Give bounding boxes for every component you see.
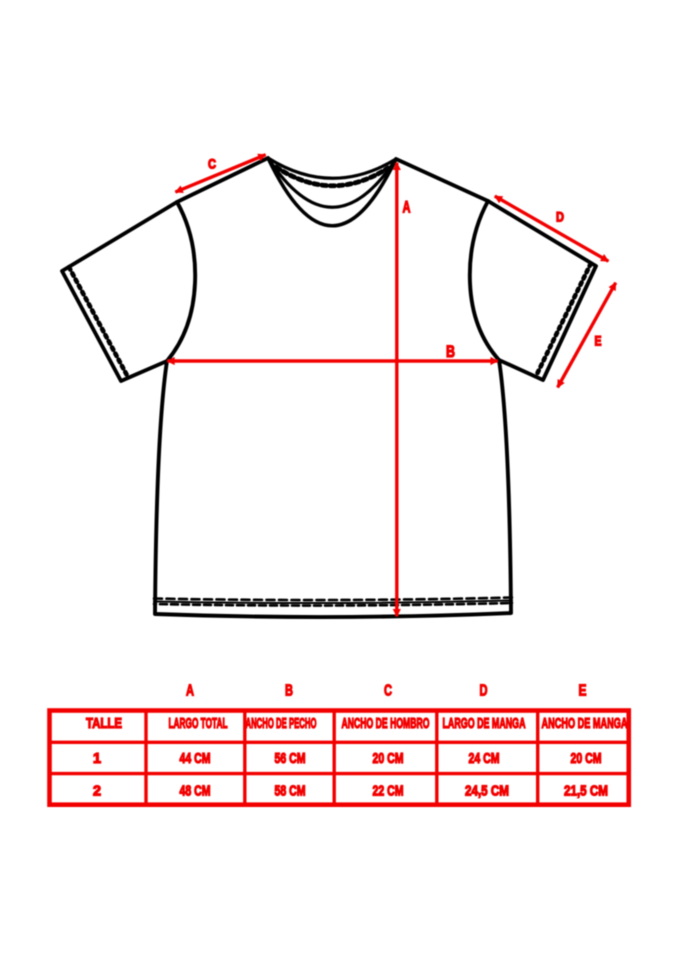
svg-text:22 CM: 22 CM [373,783,404,800]
svg-text:B: B [285,683,293,700]
svg-text:C: C [208,157,216,172]
svg-text:ANCHO DE HOMBRO: ANCHO DE HOMBRO [342,715,430,732]
svg-text:TALLE: TALLE [86,715,122,732]
svg-text:B: B [446,342,455,361]
svg-text:48 CM: 48 CM [180,783,211,800]
svg-text:LARGO DE MANGA: LARGO DE MANGA [443,715,526,732]
svg-text:D: D [480,683,488,700]
svg-text:20 CM: 20 CM [571,750,602,767]
svg-text:A: A [403,198,411,217]
svg-text:E: E [595,334,602,349]
svg-text:24 CM: 24 CM [469,750,500,767]
svg-text:LARGO TOTAL: LARGO TOTAL [169,715,228,732]
svg-text:1: 1 [93,750,101,767]
svg-text:ANCHO DE MANGA: ANCHO DE MANGA [542,715,628,732]
svg-text:24,5 CM: 24,5 CM [465,783,509,800]
svg-text:A: A [186,683,194,700]
svg-text:C: C [384,683,392,700]
svg-text:E: E [579,683,587,700]
svg-text:21,5 CM: 21,5 CM [564,783,608,800]
svg-text:D: D [556,210,564,225]
svg-text:44 CM: 44 CM [180,750,211,767]
svg-text:ANCHO DE PECHO: ANCHO DE PECHO [246,715,317,732]
svg-text:58 CM: 58 CM [275,783,306,800]
svg-text:20 CM: 20 CM [373,750,404,767]
svg-text:2: 2 [93,783,101,800]
svg-text:56 CM: 56 CM [275,750,306,767]
